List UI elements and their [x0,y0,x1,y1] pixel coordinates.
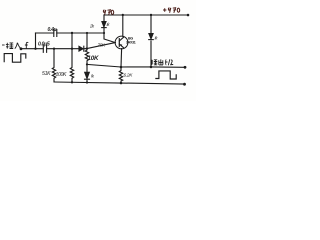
capacitor C1 0.0u5 bars [43,45,46,52]
wire rail left drop to node [103,15,105,33]
wire output to terminal [151,66,185,68]
resistor R2 51K zigzag [52,49,55,82]
node bottom rail R3 [71,81,73,83]
label input text (shu-ru f) drawn strokes [2,42,28,48]
wire input riser [35,33,37,49]
node bias column feedback junction [103,32,105,34]
label supply +9V red top right [163,8,180,13]
node input terminal [20,47,23,50]
wire collector up to rail [122,15,124,36]
waveform output square wave [155,71,176,79]
node R2 top junction [53,48,55,50]
wire feedback top from input node to left drop [36,32,105,34]
wire top rail +9V [104,14,188,16]
wire right column [150,15,152,67]
resistor R5 emitter zigzag [119,67,122,83]
node 10K output tap junction [86,63,88,65]
resistor R4 10K zigzag [85,33,88,64]
node right column output junction [150,66,153,69]
svg-text:10K: 10K [88,55,99,62]
node input diode junction [86,47,88,49]
node bottom rail emitter [120,82,123,85]
label output text (shu-chu f/2) drawn strokes [151,59,173,65]
transistor Q1 circle [115,36,128,49]
node R4 feedback junction [86,32,88,34]
node input riser junction [34,48,36,50]
svg-text:3AX31: 3AX31 [126,40,136,44]
resistor R3 100K zigzag [70,33,73,82]
waveform input square wave [4,54,26,63]
wire input line [21,48,87,50]
diode D3 right column [149,34,153,39]
capacitor C2 0.4u bars [54,30,57,37]
diode D4 to ground [85,72,90,78]
wire 10K node down to diode [86,64,88,82]
svg-text:0.4µ: 0.4µ [48,27,57,33]
label supply 9V red handwritten [103,10,113,15]
wire bottom rail [55,82,185,84]
wire emitter down [120,49,123,67]
svg-text:51K: 51K [42,71,51,77]
svg-text:100K: 100K [56,72,67,78]
wire base diagonal from bias column [104,33,115,43]
node emitter output junction [120,66,123,69]
node right column rail junction [150,14,152,16]
node output terminal [184,66,187,69]
svg-text:6.2K: 6.2K [124,73,134,79]
diode D1 series on input line [79,46,83,51]
node bottom rail R4 [86,81,88,83]
node R3 feedback junction [71,32,73,34]
node collector rail junction [122,14,124,16]
wire base diagonal from input node [87,43,116,49]
node rail terminal [187,14,190,17]
node bottom rail terminal [183,83,186,86]
svg-text:70K: 70K [98,42,107,47]
diode D2 bias column symbol [102,22,106,27]
transistor Q1 emitter diagonal with arrow [119,44,123,48]
wire output tap from 10K node [87,64,151,67]
svg-text:0.0µ5: 0.0µ5 [38,42,50,48]
transistor Q1 collector diagonal [119,37,123,41]
transistor Q1 base bar [118,39,120,47]
node R3 top junction [71,48,73,50]
